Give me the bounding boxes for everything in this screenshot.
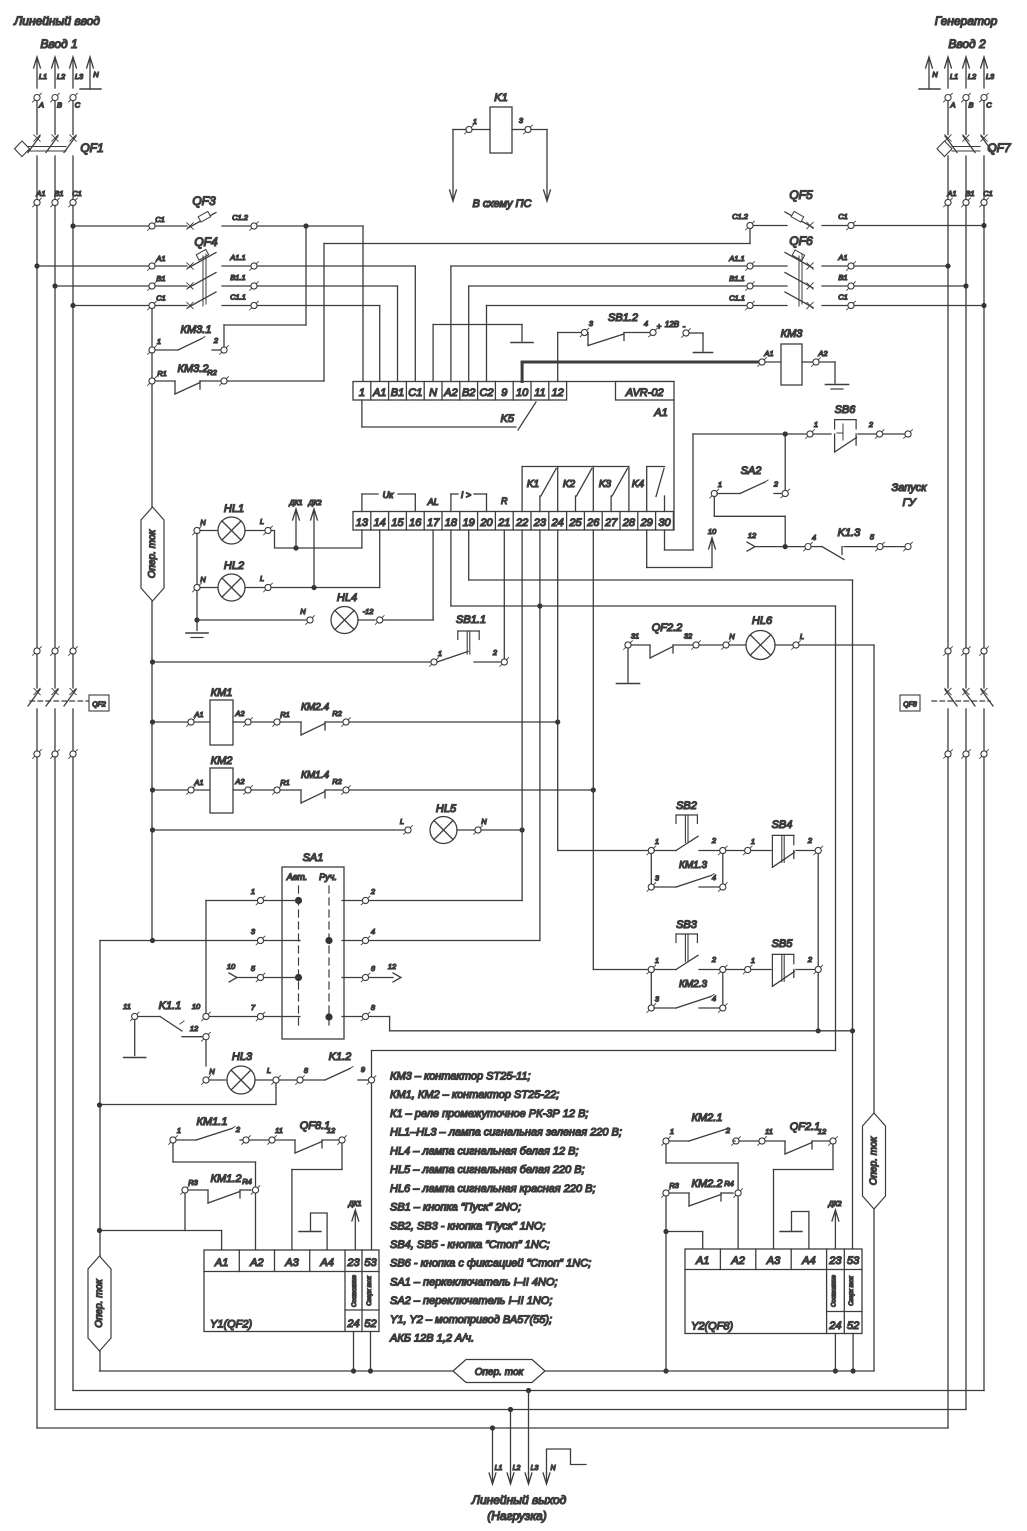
svg-text:12: 12 [552, 387, 564, 399]
svg-text:КМ1.2: КМ1.2 [211, 1173, 242, 1185]
svg-text:1: 1 [718, 480, 722, 489]
svg-text:Опер. ток: Опер. ток [869, 1135, 880, 1185]
svg-text:2: 2 [235, 1125, 241, 1134]
svg-text:SB4, SB5 - кнопка “Стоп” 1NC;: SB4, SB5 - кнопка “Стоп” 1NC; [390, 1239, 550, 1251]
svg-text:КМ3.1: КМ3.1 [181, 324, 212, 336]
svg-text:R2: R2 [207, 368, 217, 377]
svg-text:C1: C1 [983, 189, 993, 198]
svg-text:A2: A2 [234, 709, 245, 718]
svg-text:A4: A4 [319, 1257, 333, 1269]
svg-text:A: A [38, 101, 44, 110]
svg-text:SB4: SB4 [772, 819, 793, 831]
svg-text:10: 10 [708, 527, 717, 536]
svg-text:L1: L1 [495, 1465, 503, 1472]
svg-text:QF1: QF1 [80, 141, 103, 155]
svg-text:КМ3 – контактор ST25-11;: КМ3 – контактор ST25-11; [390, 1071, 531, 1083]
svg-text:ДК2: ДК2 [308, 500, 322, 507]
svg-text:N: N [209, 1067, 215, 1076]
svg-text:QF2.1: QF2.1 [790, 1121, 821, 1133]
svg-text:B1: B1 [156, 274, 165, 283]
svg-text:Ввод 2: Ввод 2 [948, 37, 986, 51]
svg-text:КМ1, КМ2 – контактор ST25-22;: КМ1, КМ2 – контактор ST25-22; [390, 1089, 559, 1101]
svg-text:Опер. ток: Опер. ток [475, 1367, 525, 1378]
svg-text:SA2 – переключатель I–II 1NO;: SA2 – переключатель I–II 1NO; [390, 1295, 552, 1307]
svg-text:R1: R1 [157, 369, 167, 378]
svg-text:1: 1 [814, 420, 818, 429]
svg-text:A2: A2 [443, 387, 457, 399]
svg-text:+: + [657, 322, 662, 331]
svg-text:Y1(QF2): Y1(QF2) [210, 1319, 253, 1331]
svg-text:L: L [267, 1066, 271, 1075]
svg-text:25: 25 [568, 517, 582, 529]
svg-text:HL1–HL3 – лампа сигнальная зел: HL1–HL3 – лампа сигнальная зеленая 220 В… [390, 1127, 622, 1139]
svg-text:1: 1 [655, 956, 659, 965]
svg-text:I >: I > [461, 490, 471, 500]
svg-text:K3: K3 [599, 479, 612, 490]
svg-text:HL6 – лампа сигнальная красная: HL6 – лампа сигнальная красная 220 В; [390, 1183, 596, 1195]
svg-text:53: 53 [847, 1255, 860, 1267]
svg-text:17: 17 [427, 517, 440, 529]
svg-text:1: 1 [655, 837, 659, 846]
svg-text:Y2(QF8): Y2(QF8) [691, 1321, 734, 1333]
svg-text:КМ1.1: КМ1.1 [197, 1116, 228, 1128]
svg-text:52: 52 [847, 1320, 859, 1332]
svg-text:HL5 – лампа сигнальная белая 2: HL5 – лампа сигнальная белая 220 В; [390, 1164, 585, 1176]
svg-text:КМ3.2: КМ3.2 [178, 363, 209, 375]
svg-text:SA2: SA2 [741, 465, 762, 477]
svg-text:24: 24 [346, 1318, 359, 1330]
svg-text:2: 2 [868, 420, 874, 429]
svg-text:A1: A1 [837, 253, 847, 262]
svg-text:A1: A1 [695, 1255, 709, 1267]
svg-text:C1.1: C1.1 [230, 293, 246, 302]
svg-text:23: 23 [533, 517, 547, 529]
svg-text:1: 1 [359, 387, 365, 399]
svg-text:C1: C1 [408, 387, 422, 399]
svg-text:16: 16 [409, 517, 422, 529]
svg-text:2: 2 [711, 836, 717, 845]
svg-text:9: 9 [501, 387, 507, 399]
svg-text:15: 15 [391, 517, 404, 529]
svg-text:A1: A1 [193, 778, 203, 787]
svg-text:A1: A1 [372, 387, 386, 399]
svg-text:4: 4 [712, 873, 716, 882]
svg-text:Запуск: Запуск [892, 482, 928, 494]
svg-text:R2: R2 [332, 777, 342, 786]
svg-text:12: 12 [388, 962, 397, 971]
svg-text:HL5: HL5 [436, 803, 457, 815]
svg-text:K1.3: K1.3 [838, 527, 862, 539]
svg-text:QF3: QF3 [192, 194, 216, 208]
svg-text:12В: 12В [665, 320, 680, 329]
svg-text:10: 10 [192, 1002, 201, 1011]
svg-text:R2: R2 [332, 709, 342, 718]
svg-text:B: B [57, 101, 62, 110]
svg-text:QF2: QF2 [92, 702, 106, 709]
svg-text:A: A [949, 101, 955, 110]
svg-text:11: 11 [123, 1002, 131, 1011]
svg-text:ДК1: ДК1 [289, 500, 303, 507]
svg-text:1: 1 [473, 117, 477, 126]
svg-text:K5: K5 [501, 413, 515, 425]
svg-text:QF4: QF4 [194, 235, 218, 249]
svg-text:L: L [800, 632, 804, 641]
svg-text:2: 2 [773, 480, 779, 489]
svg-text:B1.1: B1.1 [230, 273, 245, 282]
svg-text:A1: A1 [214, 1257, 228, 1269]
svg-text:1: 1 [438, 649, 442, 658]
svg-text:23: 23 [346, 1257, 360, 1269]
svg-text:C1.2: C1.2 [232, 213, 249, 222]
svg-text:AL: AL [427, 497, 439, 507]
svg-text:2: 2 [370, 887, 376, 896]
svg-text:КМ2.3: КМ2.3 [679, 979, 708, 990]
svg-text:30: 30 [658, 517, 671, 529]
svg-text:K1: K1 [527, 479, 539, 490]
svg-text:Опер. ток: Опер. ток [94, 1278, 105, 1328]
svg-text:L2: L2 [513, 1465, 521, 1472]
svg-text:C1: C1 [155, 215, 165, 224]
svg-text:K1.1: K1.1 [159, 1000, 182, 1012]
svg-text:L: L [260, 517, 264, 526]
svg-text:11: 11 [765, 1127, 773, 1136]
svg-text:28: 28 [622, 517, 636, 529]
svg-text:24: 24 [828, 1320, 841, 1332]
svg-text:12: 12 [327, 1126, 336, 1135]
svg-text:A2: A2 [730, 1255, 744, 1267]
svg-text:В схему ПС: В схему ПС [473, 198, 532, 210]
svg-text:A3: A3 [766, 1255, 781, 1267]
svg-text:4: 4 [371, 927, 375, 936]
svg-text:2: 2 [711, 955, 717, 964]
svg-text:КМ2: КМ2 [211, 755, 233, 767]
svg-text:14: 14 [374, 517, 386, 529]
svg-text:K1: K1 [494, 92, 507, 104]
svg-text:КМ2.1: КМ2.1 [692, 1112, 723, 1124]
svg-text:C1: C1 [156, 294, 166, 303]
svg-text:SA1 – перкеключатель I–II 4NO;: SA1 – перкеключатель I–II 4NO; [390, 1276, 558, 1288]
svg-text:B1: B1 [965, 189, 974, 198]
svg-text:N: N [200, 575, 206, 584]
svg-text:SB6: SB6 [835, 404, 857, 416]
svg-text:КМ1.3: КМ1.3 [679, 860, 708, 871]
svg-text:23: 23 [828, 1255, 842, 1267]
svg-text:R: R [501, 496, 508, 506]
svg-text:КМ1: КМ1 [211, 687, 233, 699]
svg-text:L1: L1 [39, 72, 47, 81]
svg-text:4: 4 [812, 533, 816, 542]
svg-text:N: N [729, 632, 735, 641]
svg-text:11: 11 [275, 1126, 283, 1135]
svg-text:SB2: SB2 [676, 800, 697, 812]
svg-text:N: N [200, 518, 206, 527]
svg-text:A1: A1 [946, 189, 956, 198]
svg-text:A1: A1 [155, 254, 165, 263]
svg-text:HL6: HL6 [752, 615, 773, 627]
svg-text:1: 1 [751, 956, 755, 965]
svg-text:B1: B1 [391, 387, 404, 399]
svg-text:53: 53 [364, 1257, 377, 1269]
svg-text:QF6: QF6 [789, 234, 813, 248]
svg-text:A1.1: A1.1 [728, 254, 744, 263]
svg-text:2: 2 [807, 955, 813, 964]
svg-text:B2: B2 [462, 387, 475, 399]
svg-text:1: 1 [251, 887, 255, 896]
svg-text:HL3: HL3 [232, 1051, 253, 1063]
svg-text:52: 52 [364, 1318, 376, 1330]
svg-text:K1.2: K1.2 [329, 1051, 352, 1063]
svg-text:N: N [300, 607, 306, 616]
svg-text:C: C [75, 101, 81, 110]
svg-text:11: 11 [534, 387, 545, 399]
svg-text:L3: L3 [531, 1465, 539, 1472]
svg-text:N: N [932, 70, 938, 79]
svg-text:Генератор: Генератор [935, 14, 998, 28]
svg-text:10: 10 [227, 962, 236, 971]
svg-text:SB2, SB3 - кнопка “Пуск” 1NO;: SB2, SB3 - кнопка “Пуск” 1NO; [390, 1220, 545, 1232]
svg-text:К1 – реле промежуточное РК-3Р: К1 – реле промежуточное РК-3Р 12 В; [390, 1108, 588, 1120]
svg-text:SB1.2: SB1.2 [608, 312, 638, 324]
svg-text:R4: R4 [242, 1177, 252, 1186]
svg-text:QF8.1: QF8.1 [300, 1120, 331, 1132]
svg-text:КМ3: КМ3 [781, 328, 804, 340]
svg-text:КМ2.4: КМ2.4 [301, 702, 330, 713]
svg-text:Сверх ток: Сверх ток [849, 1275, 855, 1306]
svg-text:QF2.2: QF2.2 [652, 622, 683, 634]
svg-text:12: 12 [190, 1024, 199, 1033]
svg-text:L2: L2 [968, 72, 977, 81]
svg-text:18: 18 [445, 517, 458, 529]
svg-text:HL1: HL1 [224, 503, 244, 515]
svg-text:Линейный выход: Линейный выход [471, 1493, 567, 1507]
svg-text:SB3: SB3 [676, 919, 698, 931]
svg-text:C1: C1 [838, 293, 848, 302]
svg-text:N: N [429, 387, 437, 399]
svg-text:B1.1: B1.1 [729, 274, 744, 283]
svg-text:QF5: QF5 [789, 188, 813, 202]
svg-text:29: 29 [640, 517, 653, 529]
svg-text:12: 12 [818, 1127, 827, 1136]
svg-text:L3: L3 [75, 72, 84, 81]
svg-text:A1: A1 [653, 407, 667, 419]
svg-text:R4: R4 [724, 1179, 734, 1188]
svg-text:A1: A1 [35, 189, 45, 198]
svg-text:A3: A3 [284, 1257, 299, 1269]
svg-text:C1.2: C1.2 [732, 212, 749, 221]
svg-text:C1.1: C1.1 [729, 294, 745, 303]
svg-text:21: 21 [497, 517, 510, 529]
svg-text:K4: K4 [632, 479, 645, 490]
svg-text:C1: C1 [72, 189, 82, 198]
svg-text:QF7: QF7 [987, 141, 1012, 155]
svg-text:10: 10 [516, 387, 529, 399]
svg-text:Руч.: Руч. [319, 872, 337, 882]
svg-text:L2: L2 [57, 72, 66, 81]
svg-text:L: L [260, 574, 264, 583]
svg-text:B1: B1 [54, 189, 63, 198]
svg-text:C: C [986, 101, 992, 110]
svg-text:2: 2 [725, 1126, 731, 1135]
svg-text:R1: R1 [280, 778, 290, 787]
svg-text:4: 4 [712, 994, 716, 1003]
svg-text:N: N [93, 70, 99, 79]
svg-text:Сверх ток: Сверх ток [367, 1275, 373, 1306]
svg-text:КМ1.4: КМ1.4 [301, 770, 330, 781]
svg-text:Uк: Uк [383, 490, 394, 500]
svg-text:1: 1 [157, 337, 161, 346]
svg-text:A2: A2 [249, 1257, 263, 1269]
svg-text:SB6 - кнопка с фиксацией “Ст: SB6 - кнопка с фиксацией “Стоп” 1NC; [390, 1258, 591, 1270]
svg-text:31: 31 [631, 632, 639, 641]
svg-text:4: 4 [644, 319, 648, 328]
svg-text:A1: A1 [763, 349, 773, 358]
svg-text:ГУ: ГУ [902, 497, 916, 509]
svg-text:26: 26 [586, 517, 600, 529]
svg-text:R1: R1 [280, 710, 290, 719]
svg-text:КМ2.2: КМ2.2 [692, 1178, 723, 1190]
svg-text:12: 12 [748, 531, 757, 540]
svg-text:ДК2: ДК2 [828, 1201, 842, 1208]
svg-text:27: 27 [604, 517, 618, 529]
svg-text:C1: C1 [838, 212, 848, 221]
svg-text:L3: L3 [986, 72, 995, 81]
svg-text:20: 20 [479, 517, 493, 529]
svg-text:32: 32 [684, 632, 693, 641]
svg-text:АКБ 12В 1,2 А/ч.: АКБ 12В 1,2 А/ч. [389, 1333, 474, 1345]
svg-text:1: 1 [751, 837, 755, 846]
svg-text:-12: -12 [363, 607, 375, 616]
svg-text:24: 24 [551, 517, 564, 529]
svg-text:R3: R3 [188, 1178, 198, 1187]
svg-text:C2: C2 [479, 387, 493, 399]
svg-text:HL2: HL2 [224, 560, 244, 572]
svg-text:SB5: SB5 [772, 938, 794, 950]
svg-text:Ввод 1: Ввод 1 [40, 37, 77, 51]
svg-text:QF8: QF8 [903, 702, 917, 709]
svg-text:2: 2 [213, 336, 219, 345]
svg-text:SA1: SA1 [303, 852, 324, 864]
svg-text:Состояние: Состояние [352, 1274, 358, 1307]
svg-text:2: 2 [807, 836, 813, 845]
svg-text:A1.1: A1.1 [229, 253, 245, 262]
svg-text:Y1, Y2 – мотопривод ВА57(55);: Y1, Y2 – мотопривод ВА57(55); [390, 1314, 552, 1326]
svg-text:L: L [400, 817, 404, 826]
svg-text:AVR-02: AVR-02 [625, 387, 664, 399]
svg-text:Линейный ввод: Линейный ввод [13, 14, 100, 28]
svg-text:1: 1 [670, 1127, 674, 1136]
svg-text:SB1 – кнопка “Пуск” 2NO;: SB1 – кнопка “Пуск” 2NO; [390, 1202, 521, 1214]
svg-text:1: 1 [177, 1126, 181, 1135]
svg-text:13: 13 [356, 517, 369, 529]
svg-text:19: 19 [463, 517, 475, 529]
svg-text:A2: A2 [234, 777, 245, 786]
svg-text:B1: B1 [838, 273, 847, 282]
svg-text:L1: L1 [950, 72, 958, 81]
svg-text:A4: A4 [801, 1255, 815, 1267]
svg-text:B: B [968, 101, 973, 110]
svg-text:(Нагрузка): (Нагрузка) [487, 1509, 546, 1523]
svg-text:2: 2 [492, 648, 498, 657]
svg-text:HL4: HL4 [337, 592, 357, 604]
svg-text:Состояние: Состояние [831, 1274, 837, 1307]
svg-text:N: N [481, 817, 487, 826]
svg-text:A2: A2 [817, 349, 828, 358]
svg-text:SB1.1: SB1.1 [456, 614, 486, 626]
svg-text:22: 22 [515, 517, 528, 529]
svg-text:Опер. ток: Опер. ток [147, 528, 158, 578]
svg-text:A1: A1 [193, 710, 203, 719]
svg-text:HL4 – лампа сигнальная белая 1: HL4 – лампа сигнальная белая 12 В; [390, 1145, 579, 1157]
svg-text:K2: K2 [563, 479, 576, 490]
svg-text:Авт.: Авт. [286, 872, 308, 882]
svg-text:R3: R3 [669, 1181, 679, 1190]
svg-text:ДК1: ДК1 [348, 1201, 362, 1208]
